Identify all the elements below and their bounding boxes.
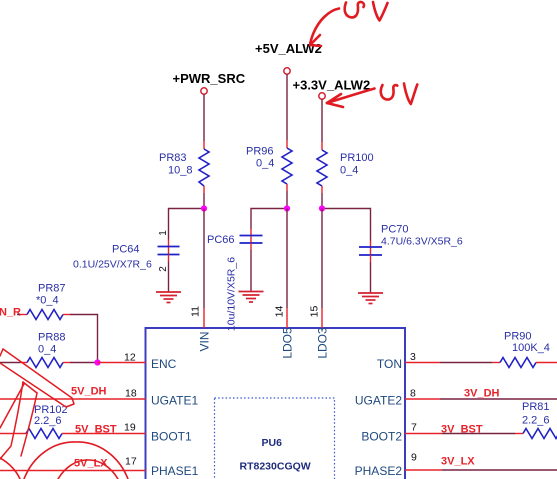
wire UGATE2 pin 8 [405, 398, 440, 400]
capacitor PC64 [158, 247, 180, 255]
ground PC66 [239, 292, 264, 303]
annotation arrow to +5V_ALW2 [310, 9, 339, 47]
svg-text:+3.3V_ALW2: +3.3V_ALW2 [293, 78, 371, 93]
svg-text:2.2_6: 2.2_6 [522, 415, 550, 427]
wire BOOT2 pin 7 [405, 433, 442, 435]
IC U=PU6 body [146, 328, 406, 479]
dotted inner box PU6 [215, 398, 335, 479]
annotation arrow to +3.3V_ALW2 [327, 89, 375, 108]
annotation scribble band A [0, 349, 74, 407]
svg-text:10u/10V/X5R_6: 10u/10V/X5R_6 [226, 257, 238, 331]
wire TON to PR90 [440, 362, 492, 364]
svg-text:7: 7 [411, 422, 417, 434]
capacitor PC70 [359, 247, 382, 255]
svg-text:*0_4: *0_4 [36, 295, 59, 307]
resistor PR102 [26, 429, 62, 439]
svg-text:8: 8 [410, 388, 416, 400]
resistor PR88 [27, 358, 63, 368]
wire N_R to PR87 [17, 314, 20, 316]
svg-text:PR90: PR90 [504, 331, 532, 343]
svg-text:PU6: PU6 [262, 437, 283, 449]
node +3.3V_ALW2 port circle [319, 93, 325, 99]
wire left of PR88 [0, 362, 20, 364]
svg-text:3V_LX: 3V_LX [441, 456, 475, 468]
node +PWR_SRC port circle [201, 88, 207, 94]
svg-text:2.2_6: 2.2_6 [34, 415, 62, 427]
wire junction row to PC66 [251, 209, 287, 230]
wire left of PR102 [0, 433, 26, 435]
svg-text:BOOT2: BOOT2 [361, 430, 402, 444]
wire PR87 to corner [63, 314, 70, 316]
svg-text:PC66: PC66 [207, 234, 235, 246]
svg-text:0_4: 0_4 [256, 158, 274, 170]
ground PC70 [358, 293, 383, 304]
svg-text:PR87: PR87 [38, 283, 66, 295]
resistor PR90 [500, 358, 536, 368]
svg-text:PC70: PC70 [381, 224, 409, 236]
svg-text:3: 3 [410, 351, 416, 363]
wire UGATE1 pin 18 [0, 398, 146, 400]
svg-text:VIN: VIN [198, 331, 212, 351]
svg-text:BOOT1: BOOT1 [151, 430, 192, 444]
wire PR100 to junction [321, 186, 323, 193]
svg-text:PHASE1: PHASE1 [151, 464, 199, 478]
node +5V_ALW2 port circle [284, 68, 290, 74]
junction dot 5V rail [284, 205, 290, 211]
annotation circle arcs bottom [0, 442, 128, 479]
wire LDO3 pin 15 [321, 209, 323, 309]
svg-text:PR96: PR96 [246, 146, 274, 158]
wire PR88 to junction [63, 362, 70, 364]
svg-text:PR81: PR81 [522, 401, 550, 413]
junction dot 3.3V rail [319, 205, 325, 211]
svg-text:15: 15 [309, 306, 321, 318]
svg-text:RT8230CGQW: RT8230CGQW [240, 461, 311, 473]
svg-text:1: 1 [158, 230, 169, 236]
svg-text:PC64: PC64 [112, 244, 140, 256]
wire PR90 right [536, 362, 557, 364]
svg-text:UGATE2: UGATE2 [355, 394, 402, 408]
svg-text:TON: TON [377, 357, 402, 371]
wire junction to ENC pin 12 [98, 362, 146, 364]
resistor PR83 [199, 149, 209, 186]
svg-text:2: 2 [158, 266, 169, 272]
annotation scribble band B [0, 382, 37, 459]
svg-text:100K_4: 100K_4 [512, 342, 550, 354]
capacitor PC66 [240, 236, 263, 244]
svg-text:17: 17 [125, 456, 137, 468]
wire PC66 to ground [250, 243, 252, 250]
svg-text:10_8: 10_8 [168, 165, 192, 177]
annotation 0V handwriting top [345, 2, 388, 21]
svg-text:5V_DH: 5V_DH [71, 386, 107, 398]
wire junction row to PC64 [169, 209, 205, 240]
svg-text:ENC: ENC [151, 357, 177, 371]
svg-text:4.7U/6.3V/X5R_6: 4.7U/6.3V/X5R_6 [381, 236, 463, 248]
wire PHASE1 pin 17 [0, 470, 146, 472]
svg-text:PHASE2: PHASE2 [355, 464, 403, 478]
wire +5V_ALW2 down to PR96 [286, 74, 288, 140]
annotation 0V handwriting right [381, 84, 418, 105]
svg-text:18: 18 [125, 388, 137, 400]
wire PR83 to junction [203, 186, 205, 193]
svg-text:UGATE1: UGATE1 [151, 394, 198, 408]
ground PC64 [156, 292, 181, 303]
resistor PR81 [523, 429, 557, 439]
svg-text:LDO3: LDO3 [316, 327, 330, 359]
resistor PR96 [282, 148, 292, 184]
svg-text:0_4: 0_4 [38, 344, 56, 356]
wire +PWR_SRC down to PR83 [203, 94, 205, 141]
svg-text:N_R: N_R [0, 307, 21, 319]
svg-text:+PWR_SRC: +PWR_SRC [173, 71, 246, 86]
wire +3.3V_ALW2 down to PR100 [321, 99, 323, 142]
wire PR102 to BOOT1 pin 19 [62, 433, 146, 435]
svg-text:12: 12 [124, 352, 136, 364]
wire TON pin 3 stub [405, 362, 440, 364]
wire PHASE2 pin 9 [405, 469, 442, 471]
svg-text:PR88: PR88 [38, 332, 66, 344]
svg-text:LDO5: LDO5 [281, 327, 295, 359]
svg-text:3V_DH: 3V_DH [464, 388, 500, 400]
svg-text:PR100: PR100 [340, 152, 374, 164]
wire junction row to PC70 [322, 209, 371, 241]
wire VIN pin 11 [203, 209, 205, 309]
resistor PR100 [317, 150, 327, 186]
svg-text:19: 19 [124, 422, 136, 434]
svg-text:0.1U/25V/X7R_6: 0.1U/25V/X7R_6 [73, 259, 152, 271]
wire PR96 to junction [286, 184, 288, 191]
svg-text:11: 11 [190, 306, 202, 317]
resistor PR87 [27, 310, 63, 320]
junction dot ENC [94, 359, 100, 365]
wire PC70 to ground [370, 255, 372, 262]
svg-text:0_4: 0_4 [340, 165, 358, 177]
svg-text:9: 9 [411, 452, 417, 464]
svg-text:PR83: PR83 [159, 152, 187, 164]
wire PC64 to ground [168, 255, 170, 262]
junction dot PWR rail [201, 205, 207, 211]
wire LDO5 pin 14 [286, 209, 288, 309]
svg-text:14: 14 [274, 306, 286, 318]
